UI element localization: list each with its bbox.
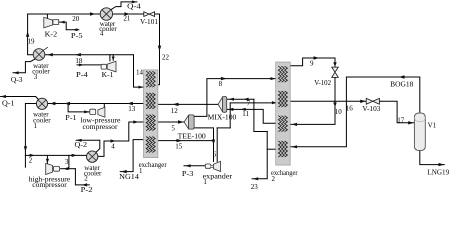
svg-text:expander: expander bbox=[203, 172, 233, 180]
arrow 12 left bbox=[173, 103, 179, 107]
MIX-100 bbox=[218, 97, 227, 113]
compressor K-1 (mirrored) bbox=[101, 61, 116, 72]
wire 21 cooler4 to V-101 bbox=[113, 13, 144, 15]
arrow into exchanger2 right at 101.5 bbox=[272, 101, 277, 104]
svg-text:18: 18 bbox=[75, 57, 83, 65]
svg-text:4: 4 bbox=[111, 142, 115, 150]
arrow 10 down bbox=[333, 102, 336, 107]
wire Q-2 energy bbox=[76, 140, 100, 152]
low-pressure compressor (mirrored) bbox=[90, 107, 105, 117]
arrow P-2 left lower bbox=[82, 183, 87, 186]
water cooler 2 bbox=[87, 151, 98, 162]
svg-text:1: 1 bbox=[139, 167, 143, 175]
wire 2 into HP compressor bbox=[25, 154, 86, 156]
svg-text:Q-4: Q-4 bbox=[127, 3, 141, 11]
wire expander out riser bbox=[229, 103, 231, 128]
wire 15 exchanger1 to expander line bbox=[158, 140, 214, 142]
arrow 4 right upper into exchanger1 bbox=[133, 120, 138, 123]
svg-text:MIX-100: MIX-100 bbox=[208, 114, 237, 122]
wire Q-4 energy bbox=[111, 2, 137, 10]
arrow 18 left bbox=[75, 53, 81, 56]
svg-text:11: 11 bbox=[242, 110, 249, 118]
exchanger 2 body bbox=[276, 62, 291, 165]
arrow 21 right bbox=[124, 12, 129, 15]
arrow 6 down bbox=[212, 140, 215, 145]
wire P-5 energy bbox=[59, 22, 79, 30]
arrow Q-2 left bbox=[76, 139, 82, 142]
svg-text:4: 4 bbox=[100, 30, 104, 38]
svg-text:LNG19: LNG19 bbox=[427, 168, 449, 176]
separator V1 bbox=[414, 113, 425, 151]
wire 17 V-103 to V1 bbox=[379, 101, 414, 123]
exchanger 1 body bbox=[144, 70, 158, 158]
svg-text:15: 15 bbox=[175, 143, 183, 151]
wire Q-1 energy bbox=[1, 97, 40, 101]
svg-text:V1: V1 bbox=[428, 121, 437, 129]
wire 5 exchanger1 to TEE-100 bbox=[158, 121, 184, 123]
svg-text:2: 2 bbox=[84, 175, 88, 183]
arrow P-1 right bbox=[84, 110, 89, 113]
svg-text:23: 23 bbox=[251, 183, 258, 191]
svg-text:1: 1 bbox=[203, 178, 207, 186]
svg-text:V-102: V-102 bbox=[314, 79, 331, 87]
expander 1 bbox=[205, 161, 220, 171]
arrow LNG19 right bbox=[439, 163, 445, 166]
svg-text:NG14: NG14 bbox=[119, 173, 139, 181]
wire P-1 energy bbox=[68, 104, 90, 112]
arrow 23 left bbox=[253, 177, 258, 180]
arrow 17 right bbox=[408, 121, 414, 124]
svg-text:12: 12 bbox=[171, 107, 179, 115]
svg-text:Q-1: Q-1 bbox=[2, 99, 15, 107]
wire 9 exchanger2 to V-102 bbox=[290, 58, 335, 67]
wire 8 TEE top out to exchanger2 bbox=[194, 79, 276, 117]
valve V-103 bbox=[366, 98, 379, 104]
wire LP compressor suction stub bbox=[103, 104, 105, 109]
arrow P-4 right bbox=[79, 63, 84, 66]
arrows bbox=[1, 0, 445, 186]
wire 12 MIX-100 to exchanger1 bbox=[158, 103, 218, 105]
wire P-4 energy bbox=[77, 64, 101, 66]
svg-text:10: 10 bbox=[335, 108, 343, 116]
water cooler 1 bbox=[36, 98, 47, 109]
arrow 3 right bbox=[72, 154, 78, 157]
wire 6 TEE bottom to expander bbox=[194, 128, 213, 162]
arrow V-102 down bbox=[333, 62, 336, 67]
wire P-3 energy bbox=[184, 165, 205, 167]
arrow 2 right bbox=[30, 154, 35, 157]
arrow 11 left second bbox=[241, 108, 246, 111]
wire 3 HP outlet to cooler2 bbox=[61, 168, 76, 170]
wire into exchanger2 at 101.5 bbox=[230, 102, 276, 104]
arrow 13 left bbox=[127, 102, 133, 105]
arrow Q-1 left bbox=[1, 95, 6, 98]
svg-text:21: 21 bbox=[123, 14, 130, 22]
wire 10 V-102 to exchanger2 bbox=[290, 77, 335, 124]
wire 19 vertical bbox=[28, 14, 34, 55]
wire 18 K-1 to cooler3 bbox=[45, 54, 134, 56]
arrow 1 left near cooler1 bbox=[50, 102, 56, 105]
svg-text:22: 22 bbox=[162, 53, 170, 61]
svg-text:19: 19 bbox=[28, 38, 36, 46]
wire K-2 suction stub bbox=[46, 14, 48, 19]
exchanger 2 coils bbox=[278, 66, 287, 157]
arrow 14 right into exchanger bbox=[139, 86, 144, 89]
arrow into cooler3 left bbox=[47, 53, 53, 56]
svg-text:Q-3: Q-3 bbox=[11, 76, 23, 84]
svg-text:3: 3 bbox=[34, 73, 38, 81]
wire Q-3 energy bbox=[13, 59, 35, 73]
arrow Q-3 left bbox=[14, 71, 19, 74]
water cooler 3 bbox=[33, 47, 48, 60]
valve V-102 (vertical) bbox=[332, 67, 339, 77]
wire 7 jog vertical bbox=[254, 99, 267, 131]
svg-text:compressor: compressor bbox=[83, 123, 119, 131]
svg-text:exchanger: exchanger bbox=[271, 169, 298, 177]
arrow 16 right bbox=[360, 100, 366, 103]
arrow Q-4 right bbox=[132, 0, 137, 3]
wire K-1 stubs bbox=[109, 55, 111, 61]
svg-text:P-2: P-2 bbox=[81, 186, 93, 194]
water cooler 4 bbox=[100, 8, 112, 20]
arrow P-3 left bbox=[185, 164, 190, 167]
svg-text:V-103: V-103 bbox=[362, 105, 381, 113]
compressor K-2 bbox=[44, 17, 59, 27]
svg-text:2: 2 bbox=[272, 175, 276, 183]
svg-text:20: 20 bbox=[72, 15, 80, 23]
svg-text:compressor: compressor bbox=[32, 181, 67, 189]
svg-text:3: 3 bbox=[65, 158, 69, 166]
wire 4 cooler2 to exchanger1 bbox=[98, 122, 144, 156]
svg-text:P-5: P-5 bbox=[71, 32, 83, 40]
svg-text:8: 8 bbox=[219, 80, 223, 88]
arrow HP stub down bbox=[46, 159, 49, 163]
valve V-101 bbox=[144, 12, 155, 17]
wire LNG19 product bbox=[420, 151, 445, 165]
arrow K-1 stub down bbox=[112, 57, 115, 61]
svg-text:exchanger: exchanger bbox=[139, 161, 168, 169]
arrow 2 down cooler1 line bbox=[24, 146, 27, 151]
exchanger 1 coils bbox=[146, 71, 155, 152]
arrow BOG18 left bbox=[399, 75, 405, 78]
arrow 10 left into exchanger2 bbox=[291, 123, 297, 126]
wire 16 exchanger2 to V-103 bbox=[290, 100, 366, 102]
svg-text:P-4: P-4 bbox=[76, 71, 88, 79]
svg-text:5: 5 bbox=[171, 125, 175, 133]
wire 14 into exchanger1 bbox=[134, 55, 144, 87]
arrow P-2 left near square bbox=[63, 167, 68, 170]
wire expander outlet bbox=[216, 128, 218, 162]
svg-text:V-101: V-101 bbox=[140, 18, 159, 26]
svg-text:BOG18: BOG18 bbox=[390, 81, 414, 89]
wire top row to K-2 bbox=[28, 13, 101, 15]
arrow 11 left near cap bbox=[228, 108, 233, 111]
svg-text:P-1: P-1 bbox=[65, 114, 77, 122]
arrow 20 right bbox=[90, 12, 95, 15]
svg-text:TEE-100: TEE-100 bbox=[178, 132, 207, 140]
wire cooler1 outlet down bbox=[25, 104, 36, 168]
svg-text:14: 14 bbox=[136, 69, 144, 77]
wire BOG18 V1 to exchanger2 bbox=[290, 77, 420, 147]
arrow 5 right bbox=[178, 120, 184, 123]
svg-text:16: 16 bbox=[346, 104, 354, 112]
wire NG14 feed bbox=[120, 140, 143, 172]
wire P-2 energy bbox=[75, 169, 89, 185]
wire 7 to MIX-100 bbox=[227, 98, 254, 100]
arrow NG14 left bbox=[121, 170, 127, 173]
arrow 8 into exchanger2 hug bbox=[271, 77, 276, 80]
arrow 19 up bbox=[26, 31, 29, 37]
arrow 9 right bbox=[314, 56, 320, 59]
wire 11 to MIX-100 bbox=[227, 109, 276, 123]
wire HP suction stub bbox=[46, 155, 48, 163]
arrow 1 left second bbox=[64, 102, 70, 105]
svg-text:Q-2: Q-2 bbox=[75, 141, 88, 149]
arrow P-5 left lower bbox=[73, 28, 78, 31]
svg-text:17: 17 bbox=[397, 116, 405, 124]
high-pressure compressor bbox=[46, 163, 60, 174]
svg-text:13: 13 bbox=[128, 105, 136, 113]
svg-text:1: 1 bbox=[34, 122, 38, 130]
arrow P-5 left near square bbox=[60, 21, 65, 24]
svg-text:6: 6 bbox=[213, 150, 217, 158]
svg-text:2: 2 bbox=[29, 157, 33, 165]
wire 22 V-101 to exchanger1 bbox=[155, 14, 160, 85]
svg-text:K-1: K-1 bbox=[102, 71, 114, 79]
arrow 8 right bbox=[221, 77, 227, 80]
arrow 15 right bbox=[177, 139, 183, 142]
arrow 7 left second bbox=[243, 98, 248, 101]
wire 13 exchanger1 to LP compressor and stream 1 to cooler1 bbox=[48, 103, 144, 105]
svg-text:7: 7 bbox=[247, 99, 251, 107]
svg-text:P-3: P-3 bbox=[182, 170, 194, 178]
TEE-100 bbox=[184, 115, 194, 129]
arrow BOG into exchanger2 bbox=[291, 145, 297, 148]
wire stair into exchanger2 bbox=[252, 132, 267, 179]
svg-text:K-2: K-2 bbox=[45, 31, 58, 39]
arrow 22 down bbox=[158, 46, 161, 52]
svg-text:9: 9 bbox=[310, 60, 314, 68]
arrow 7 left near cap bbox=[229, 98, 234, 101]
arrow 4 right bbox=[111, 139, 117, 142]
